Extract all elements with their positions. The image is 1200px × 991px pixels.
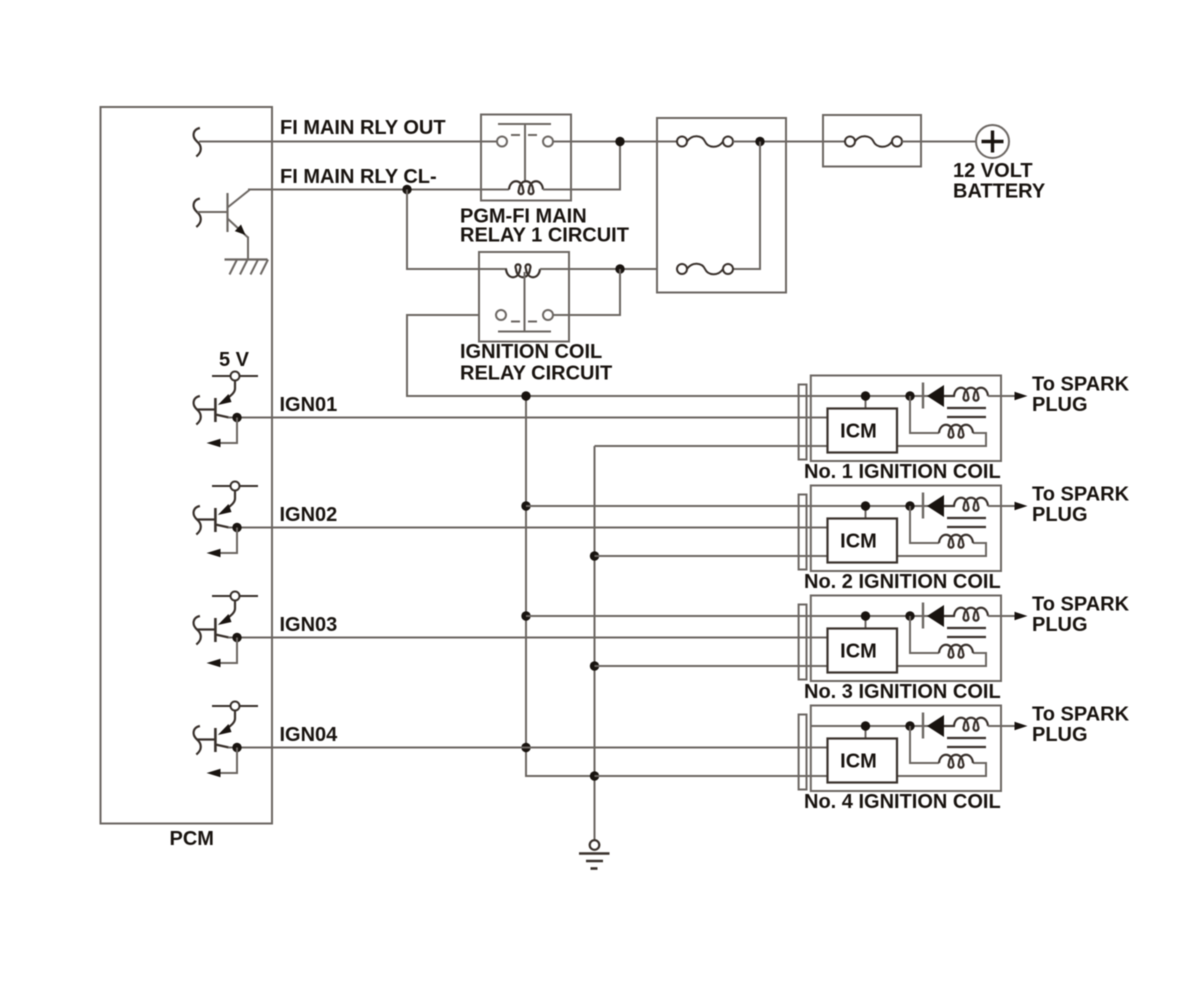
svg-text:To SPARK: To SPARK <box>1032 374 1130 396</box>
wire relay K1 coil output up to 12V line <box>571 142 620 190</box>
relay K2 box: IGNITION COIL RELAY <box>479 252 569 342</box>
relay K1 coil <box>509 181 543 194</box>
PCM box (powertrain control module) <box>101 107 273 824</box>
wire bus 2 (coil secondary return to ground) <box>594 446 596 840</box>
relay K2 armature bar <box>498 331 551 333</box>
diode D4 cathode bar <box>922 713 924 739</box>
No.3 ignition coil outer box <box>811 596 1001 682</box>
No.3 coil connector bracket <box>799 605 807 680</box>
wire IGN03 output from collector to ignition coil <box>228 637 830 639</box>
svg-text:PLUG: PLUG <box>1032 504 1088 526</box>
relay K1 plunger line <box>524 124 526 182</box>
transistor driver IGN03 base bar <box>214 618 217 642</box>
ICM module box (No.2) <box>828 519 898 563</box>
svg-text:ICM: ICM <box>840 751 877 773</box>
wire base of driver IGN02 <box>198 518 216 520</box>
fuse F2 <box>677 264 687 274</box>
node: dot secondary tap (No.2) <box>905 501 914 510</box>
wire secondary from tap dot (No.1) <box>910 396 939 433</box>
node: bus2 dot at No.4 coil return <box>590 771 599 780</box>
diode D2 cathode bar <box>922 493 924 519</box>
wire diode to primary winding (No.3) <box>944 615 955 617</box>
fuse F1 <box>677 137 687 147</box>
svg-text:To SPARK: To SPARK <box>1032 594 1130 616</box>
wire No.3 coil top feed <box>526 615 929 617</box>
svg-text:No. 4 IGNITION COIL: No. 4 IGNITION COIL <box>804 791 1001 813</box>
relay K1 contact circles <box>497 137 507 147</box>
diode D3 cathode bar <box>922 603 924 629</box>
node: dot to ICM (No.4) <box>865 726 867 740</box>
5V supply terminal circle (driver IGN02) <box>212 485 258 487</box>
wire secondary from tap dot (No.4) <box>910 726 939 763</box>
transistor driver IGN02 emitter from 5V with arrow <box>227 491 235 509</box>
arrow to spark plug (No.2) <box>1015 502 1028 511</box>
battery positive terminal circle <box>976 125 1009 158</box>
wire spark plug output (No.3) <box>988 615 1015 617</box>
5V supply terminal circle (driver IGN03) <box>212 595 258 597</box>
relay K1 box: PGM-FI MAIN RELAY 1 <box>481 115 571 201</box>
svg-text:ICM: ICM <box>840 641 877 663</box>
svg-text:To SPARK: To SPARK <box>1032 484 1130 506</box>
arrow to spark plug (No.3) <box>1015 612 1028 621</box>
svg-text:BATTERY: BATTERY <box>953 181 1046 203</box>
svg-text:12 VOLT: 12 VOLT <box>953 160 1033 182</box>
transistor Q1 collector <box>228 190 251 208</box>
wire No.3 coil bottom return <box>595 653 987 666</box>
svg-text:ICM: ICM <box>840 531 877 553</box>
transistor driver IGN01 emitter from 5V with arrow <box>227 381 235 399</box>
svg-text:To SPARK: To SPARK <box>1032 704 1130 726</box>
svg-text:ICM: ICM <box>840 421 877 443</box>
svg-text:No. 3 IGNITION COIL: No. 3 IGNITION COIL <box>804 681 1001 703</box>
wire relay K2 coil right exit to fuse box <box>540 268 657 270</box>
wire secondary from tap dot (No.3) <box>910 616 939 653</box>
ground (hatched) under Q1 <box>225 258 268 260</box>
wire from CL- junction down to ignition coil relay coil <box>407 190 507 270</box>
transformer core lines (No.1) <box>947 407 986 409</box>
svg-text:IGNITION COIL: IGNITION COIL <box>460 341 602 363</box>
relay K2 coil (inverted) <box>506 264 540 277</box>
node: bus1 dot at No.1 coil feed <box>521 391 530 400</box>
transistor driver IGN02 collector <box>215 525 229 528</box>
inductor secondary winding L4b <box>939 755 973 768</box>
svg-text:PLUG: PLUG <box>1032 614 1088 636</box>
wire base of driver IGN01 <box>198 408 216 410</box>
transistor driver IGN04 emitter from 5V with arrow <box>227 711 235 729</box>
svg-text:5 V: 5 V <box>219 349 250 371</box>
node: bus2 dot at No.3 coil return <box>590 661 599 670</box>
transistor driver IGN01 base bar <box>214 398 217 422</box>
wire base of driver IGN04 <box>198 738 216 740</box>
transistor driver IGN04 base bar <box>214 728 217 752</box>
wire base of driver IGN03 <box>198 628 216 630</box>
fuse box (battery fuse) outline <box>823 115 921 167</box>
transistor driver IGN04 collector <box>215 745 229 748</box>
wire No.4 coil bottom return <box>595 763 987 776</box>
arrow to spark plug (No.1) <box>1015 392 1028 401</box>
battery plus sign <box>982 140 1004 143</box>
diode D2 triangle <box>927 495 944 517</box>
wire relay K2 right contact up to output dot <box>553 269 620 315</box>
No.2 coil connector bracket <box>799 495 807 570</box>
wire spark plug output (No.4) <box>988 725 1015 727</box>
node: dot joining F2 feed <box>755 137 764 146</box>
5V supply terminal circle (driver IGN01) <box>212 375 258 377</box>
ICM module box (No.3) <box>828 629 898 673</box>
wire IGN04 output from collector to ignition coil <box>228 747 830 749</box>
relay K2 linkage dashed line <box>511 321 537 323</box>
connector pin squiggle (IGN01 base) <box>194 396 201 425</box>
wire No.2 coil top feed <box>526 505 929 507</box>
inductor primary winding L1a <box>954 388 988 401</box>
svg-text:No. 2 IGNITION COIL: No. 2 IGNITION COIL <box>804 571 1001 593</box>
transformer core lines (No.2) <box>947 517 986 519</box>
inductor secondary winding L1b <box>939 425 973 438</box>
fuse box (dual fuse) outline <box>657 118 786 293</box>
relay K2 plunger line <box>524 272 526 332</box>
svg-text:FI MAIN RLY OUT: FI MAIN RLY OUT <box>280 117 446 139</box>
inductor primary winding L2a <box>954 498 988 511</box>
wire from dot down to fuse F2 <box>733 142 760 270</box>
ICM module box (No.1) <box>828 409 898 453</box>
node: dot secondary tap (No.4) <box>905 721 914 730</box>
wire power bus 1 (from ignition coil relay) <box>526 396 595 776</box>
No.2 ignition coil outer box <box>811 486 1001 572</box>
transistor Q1 emitter with arrow <box>228 219 249 238</box>
node: dot secondary tap (No.1) <box>905 391 914 400</box>
No.1 coil connector bracket <box>799 385 807 460</box>
svg-text:IGN02: IGN02 <box>280 504 338 526</box>
node: dot to ICM (No.3) <box>865 616 867 630</box>
inductor primary winding L4a <box>954 718 988 731</box>
ground (circle + bars) at bottom of bus 2 <box>590 840 600 850</box>
wire diode to primary winding (No.1) <box>944 395 955 397</box>
No.4 coil connector bracket <box>799 715 807 790</box>
node: dot on IGN03 output <box>232 633 241 642</box>
wire Q1 emitter to ground <box>247 237 249 260</box>
node: dot at relay K2 output <box>615 264 624 273</box>
transistor driver IGN03 collector <box>215 635 229 638</box>
relay K2 contact circles <box>496 310 506 320</box>
wire FI MAIN RLY OUT from PCM to relay 1 <box>199 141 481 143</box>
svg-text:IGN01: IGN01 <box>280 394 338 416</box>
inductor secondary winding L2b <box>939 535 973 548</box>
node: dot to ICM (No.2) <box>865 506 867 520</box>
inductor secondary winding L3b <box>939 645 973 658</box>
svg-text:IGN04: IGN04 <box>280 724 339 746</box>
svg-text:PLUG: PLUG <box>1032 394 1088 416</box>
wire IGN01 emitter-return with left arrow <box>219 418 237 444</box>
svg-text:IGN03: IGN03 <box>280 614 338 636</box>
wire IGN02 emitter-return with left arrow <box>219 528 237 554</box>
wire No.4 coil top feed <box>811 725 929 727</box>
node: CL- junction dot <box>402 185 411 194</box>
No.4 ignition coil outer box <box>811 706 1001 792</box>
wire secondary from tap dot (No.2) <box>910 506 939 543</box>
transformer core lines (No.3) <box>947 627 986 629</box>
node: dot on IGN01 output <box>232 413 241 422</box>
transformer core lines (No.4) <box>947 737 986 739</box>
relay K1 armature bar <box>498 123 551 125</box>
wire IGN02 output from collector to ignition coil <box>228 527 830 529</box>
node: dot at relay K1 output <box>615 137 624 146</box>
node: dot secondary tap (No.3) <box>905 611 914 620</box>
diode D1 cathode bar <box>922 383 924 409</box>
wire relay K1 contact left stub <box>481 141 497 143</box>
wire base of Q1 <box>198 211 228 213</box>
diode D3 triangle <box>927 605 944 627</box>
ICM module box (No.4) <box>828 739 898 783</box>
svg-text:No. 1 IGNITION COIL: No. 1 IGNITION COIL <box>804 461 1001 483</box>
node: bus1 dot at IGN04 line <box>521 743 530 752</box>
arrow to spark plug (No.4) <box>1015 722 1028 731</box>
connector pin squiggle (IGN02 base) <box>194 506 201 535</box>
svg-text:PCM: PCM <box>170 828 214 850</box>
node: dot on IGN04 output <box>232 743 241 752</box>
wire F1 output to battery fuse box <box>733 141 845 143</box>
wire IGN04 emitter-return with left arrow <box>219 748 237 774</box>
svg-text:RELAY CIRCUIT: RELAY CIRCUIT <box>460 363 612 385</box>
node: bus1 dot at No.2 coil feed <box>521 501 530 510</box>
inductor primary winding L3a <box>954 608 988 621</box>
wire F3 to battery terminal <box>902 141 976 143</box>
connector pin squiggle (IGN04 base) <box>194 726 201 755</box>
node: dot to ICM (No.1) <box>865 396 867 410</box>
connector pin squiggle (IGN03 base) <box>194 616 201 645</box>
wire relay K2 left contact to ignition coil power bus <box>407 315 929 396</box>
wire spark plug output (No.1) <box>988 395 1015 397</box>
wire FI MAIN RLY CL- from Q1 to relay coils <box>248 189 509 191</box>
node: dot on IGN02 output <box>232 523 241 532</box>
transistor driver IGN03 emitter from 5V with arrow <box>227 601 235 619</box>
transistor Q1 base bar <box>226 193 228 232</box>
transistor driver IGN02 base bar <box>214 508 217 532</box>
connector pin squiggle: FI MAIN RLY CL- base input <box>194 199 201 228</box>
svg-text:RELAY 1 CIRCUIT: RELAY 1 CIRCUIT <box>460 225 629 247</box>
relay K1 linkage dashed line <box>511 134 537 136</box>
wire relay K1 coil right exit <box>543 189 571 191</box>
wire No.2 coil bottom return <box>595 543 987 556</box>
node: bus2 dot at No.2 coil return <box>590 551 599 560</box>
wire spark plug output (No.2) <box>988 505 1015 507</box>
connector pin squiggle: FI MAIN RLY OUT <box>194 128 201 157</box>
wire relay K1 contact right to fuse box <box>553 141 677 143</box>
wire diode to primary winding (No.4) <box>944 725 955 727</box>
5V supply terminal circle (driver IGN04) <box>212 705 258 707</box>
diode D1 triangle <box>927 385 944 407</box>
transistor driver IGN01 collector <box>215 415 229 418</box>
node: bus1 dot at No.3 coil feed <box>521 611 530 620</box>
No.1 ignition coil outer box <box>811 376 1001 462</box>
svg-text:FI MAIN RLY CL-: FI MAIN RLY CL- <box>280 166 437 188</box>
fuse F3 <box>845 137 855 147</box>
wire IGN01 output from collector to ignition coil <box>228 417 830 419</box>
wire diode to primary winding (No.2) <box>944 505 955 507</box>
wire IGN03 emitter-return with left arrow <box>219 638 237 664</box>
wire No.1 coil bottom return <box>595 433 987 446</box>
diode D4 triangle <box>927 715 944 737</box>
svg-text:PLUG: PLUG <box>1032 724 1088 746</box>
